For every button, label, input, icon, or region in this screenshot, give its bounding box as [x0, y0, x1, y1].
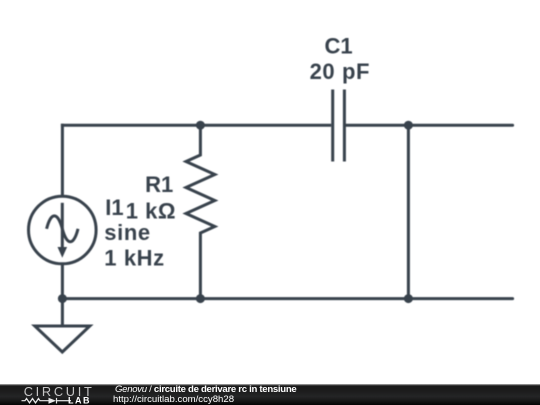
footer bar	[0, 384, 540, 405]
logo diode triangle	[49, 398, 57, 404]
resistor R1 (top lead, zigzag body, bottom lead)	[186, 125, 215, 298]
footer caption	[113, 385, 296, 404]
wire: left vertical (top net down to I1 top terminal)	[61, 124, 64, 197]
svg-text:1 kHz: 1 kHz	[104, 245, 164, 270]
I1 arrowhead	[58, 247, 68, 258]
svg-text:sine: sine	[104, 220, 150, 245]
capacitor C1 right plate	[343, 90, 346, 162]
svg-text:R1: R1	[145, 172, 173, 197]
wire: I1 bottom terminal down to ground	[61, 263, 64, 326]
junction dot (bottom left)	[58, 294, 67, 303]
junction dot (R1 bottom)	[196, 294, 205, 303]
wire: top horizontal (corner to C1 left plate)	[61, 124, 331, 127]
junction dot (right bottom)	[404, 294, 413, 303]
logo resistor-diode glyph	[22, 398, 72, 404]
junction dot node A (R1 top)	[196, 121, 205, 130]
current source I1 (circle body)	[29, 196, 97, 264]
wire: top right (C1 right plate to right end)	[346, 124, 513, 127]
wire: bottom horizontal	[62, 297, 512, 300]
svg-text:LAB: LAB	[68, 395, 91, 405]
junction dot node B (right top)	[404, 121, 413, 130]
I1 arrow shaft	[61, 203, 64, 249]
I1 sine-wave mark	[47, 216, 78, 242]
ground	[35, 326, 90, 352]
svg-text:I1: I1	[105, 195, 123, 220]
wire: right vertical	[407, 125, 410, 298]
capacitor C1 left plate	[331, 90, 334, 162]
svg-text:C1: C1	[324, 33, 352, 58]
CircuitLab logo	[0, 384, 100, 405]
svg-text:20 pF: 20 pF	[310, 59, 370, 84]
